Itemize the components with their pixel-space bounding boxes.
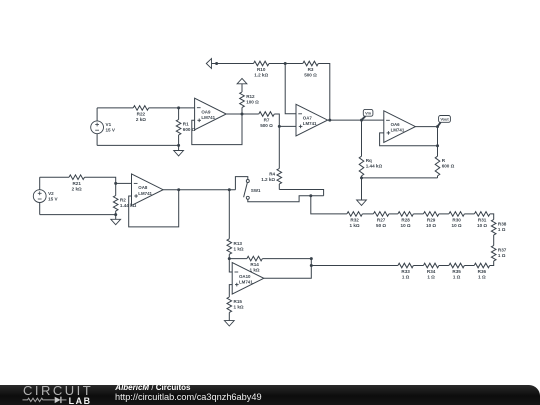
svg-text:1 Ω: 1 Ω xyxy=(427,275,435,280)
wire V1 bottom xyxy=(97,144,179,146)
wire to SW1 top terminal xyxy=(235,177,247,190)
wire R21 to R2 column xyxy=(85,177,116,195)
supply arrow above R12 xyxy=(237,78,247,88)
node OA7 output left junction xyxy=(328,119,331,122)
wire OA8 feedback loop xyxy=(129,190,179,227)
wire V2 to R21 xyxy=(40,176,69,178)
svg-text:1 kΩ: 1 kΩ xyxy=(234,246,244,251)
resistor R1 xyxy=(176,108,195,145)
wire OA10 non-inverting to R15 xyxy=(229,285,232,297)
svg-text:10 Ω: 10 Ω xyxy=(426,223,436,228)
node ground junction 3 xyxy=(114,213,117,216)
wire arrow to R10 xyxy=(218,63,254,65)
svg-text:1.44 kΩ: 1.44 kΩ xyxy=(366,163,383,168)
svg-text:R33: R33 xyxy=(401,269,410,274)
node OA8 output junction xyxy=(177,188,180,191)
svg-text:R: R xyxy=(442,158,446,163)
resistor Rq xyxy=(359,120,382,178)
wire R14 to output column xyxy=(262,258,311,260)
voltage source V2 xyxy=(33,177,58,214)
wire R30-R31 xyxy=(464,213,474,215)
svg-text:10 Ω: 10 Ω xyxy=(477,223,487,228)
svg-text:1 Ω: 1 Ω xyxy=(402,275,410,280)
wire OA8 output to R13/SW1 node xyxy=(179,189,236,191)
flag Vin xyxy=(362,109,373,120)
svg-text:10 Ω: 10 Ω xyxy=(401,223,411,228)
svg-text:1 kΩ: 1 kΩ xyxy=(234,305,244,310)
wire R37 to bottom chain xyxy=(490,261,494,266)
resistor R38 xyxy=(491,220,506,235)
svg-text:R36: R36 xyxy=(478,269,487,274)
op-amp OA8 xyxy=(132,174,164,206)
footer bar xyxy=(0,385,540,405)
node R10/R3 junction xyxy=(284,62,287,65)
resistor R4 xyxy=(261,126,281,189)
node OA6 feedback junction xyxy=(436,144,439,147)
wire R22 to OA9 inverting input xyxy=(149,107,195,109)
node OA8 inverting junction xyxy=(114,182,117,185)
wire R28-R29 xyxy=(413,213,423,215)
resistor R34 xyxy=(423,263,438,279)
wire R27-R28 xyxy=(389,213,398,215)
svg-text:R15: R15 xyxy=(234,299,243,304)
url line xyxy=(115,392,262,402)
author line xyxy=(115,383,190,392)
svg-text:LM741: LM741 xyxy=(303,121,317,126)
node flag arrow left xyxy=(206,59,217,69)
wire V2 bottom xyxy=(40,214,116,216)
svg-text:1 Ω: 1 Ω xyxy=(453,275,461,280)
svg-text:500 Ω: 500 Ω xyxy=(260,123,273,128)
CircuitLab logo schematic squiggle xyxy=(21,395,71,405)
svg-text:R27: R27 xyxy=(377,218,386,223)
resistor R2 xyxy=(113,196,136,215)
wire top junction down to OA7 inverting input xyxy=(285,64,296,114)
svg-text:OA9: OA9 xyxy=(201,110,211,115)
resistor R37 xyxy=(491,246,506,261)
wire R34-R33 xyxy=(413,265,423,267)
wire R33 to OA10 output column xyxy=(311,265,398,267)
resistor R33 xyxy=(398,263,413,279)
svg-text:V1: V1 xyxy=(106,122,112,127)
svg-text:1.2 kΩ: 1.2 kΩ xyxy=(254,73,268,78)
wire R3 to OA7 output column xyxy=(318,64,330,121)
wire OA6 output xyxy=(415,126,437,128)
CircuitLab logo text LAB xyxy=(69,396,92,405)
svg-text:R37: R37 xyxy=(498,248,507,253)
svg-text:OA7: OA7 xyxy=(303,116,313,121)
svg-text:15 V: 15 V xyxy=(48,196,58,201)
svg-text:LM741: LM741 xyxy=(138,191,152,196)
svg-text:R34: R34 xyxy=(427,269,436,274)
flag Vout xyxy=(438,116,451,127)
ground below R2 xyxy=(111,215,121,225)
resistor R28 xyxy=(398,212,413,228)
node chain/output column junction xyxy=(310,264,313,267)
svg-text:R30: R30 xyxy=(452,218,461,223)
op-amp OA6 xyxy=(384,111,416,143)
wire OA7 output to Vin node xyxy=(328,119,384,121)
wire OA9 output to R7 xyxy=(242,113,259,115)
resistor R27 xyxy=(373,212,388,228)
resistor R36 xyxy=(474,263,489,279)
node Vin junction xyxy=(360,119,363,122)
resistor R29 xyxy=(423,212,438,228)
node SW1 net junction xyxy=(309,194,312,197)
resistor R21 xyxy=(69,175,84,191)
svg-text:1 Ω: 1 Ω xyxy=(498,253,506,258)
svg-text:LM741: LM741 xyxy=(391,128,405,133)
voltage source V1 xyxy=(91,108,116,145)
wire OA6 output column xyxy=(437,127,439,157)
svg-text:R29: R29 xyxy=(427,218,436,223)
svg-text:R12: R12 xyxy=(246,94,255,99)
node arrow junction xyxy=(215,62,218,65)
wire R31 to right column xyxy=(490,214,494,220)
svg-text:OA6: OA6 xyxy=(391,122,401,127)
resistor R12 xyxy=(240,89,259,115)
wire R7 to OA7 non-inverting input xyxy=(274,114,296,126)
svg-text:R2: R2 xyxy=(120,198,126,203)
wire SW1 bottom path xyxy=(248,196,324,202)
CircuitLab logo text CIRCUIT xyxy=(23,383,93,398)
node ground junction 2 xyxy=(360,176,363,179)
node R14/output junction xyxy=(310,257,313,260)
svg-text:OA8: OA8 xyxy=(138,185,148,190)
svg-text:1.2 kΩ: 1.2 kΩ xyxy=(261,177,275,182)
resistor R13 xyxy=(227,190,244,259)
wire junction to OA8 inverting input xyxy=(116,182,132,184)
svg-text:50 Ω: 50 Ω xyxy=(376,223,386,228)
node Vout junction xyxy=(436,125,439,128)
wire net to resistor chain xyxy=(311,196,347,214)
svg-text:R31: R31 xyxy=(478,218,487,223)
svg-text:2 kΩ: 2 kΩ xyxy=(136,117,146,122)
svg-text:OA10: OA10 xyxy=(239,274,251,279)
resistor R32 xyxy=(347,212,362,228)
svg-text:R21: R21 xyxy=(72,181,81,186)
svg-text:100 Ω: 100 Ω xyxy=(246,100,259,105)
switch SW1 xyxy=(244,180,261,200)
node R22/R1 junction xyxy=(177,106,180,109)
svg-text:500 Ω: 500 Ω xyxy=(304,73,317,78)
resistor R15 xyxy=(227,297,244,312)
svg-text:Vin: Vin xyxy=(365,110,372,115)
svg-text:V2: V2 xyxy=(48,191,54,196)
svg-text:600 Ω: 600 Ω xyxy=(442,163,455,168)
svg-text:R1: R1 xyxy=(183,122,189,127)
node R13/R14 junction xyxy=(228,257,231,260)
svg-text:1 kΩ: 1 kΩ xyxy=(350,223,360,228)
resistor R22 xyxy=(133,106,148,122)
svg-text:R14: R14 xyxy=(250,262,259,267)
wire R32-R27 xyxy=(362,213,373,215)
svg-text:Vout: Vout xyxy=(440,117,449,122)
svg-text:R22: R22 xyxy=(137,112,146,117)
ground below R15 xyxy=(224,313,234,327)
svg-text:1 Ω: 1 Ω xyxy=(478,275,486,280)
svg-text:LM741: LM741 xyxy=(201,115,215,120)
node R13/SW1 junction xyxy=(228,188,231,191)
resistor R30 xyxy=(449,212,464,228)
resistor R35 xyxy=(449,263,464,279)
wire OA9 feedback loop xyxy=(192,114,242,145)
wire to OA10 inverting input xyxy=(229,259,232,272)
svg-text:1 Ω: 1 Ω xyxy=(498,227,506,232)
svg-text:2 kΩ: 2 kΩ xyxy=(72,186,82,191)
svg-text:SW1: SW1 xyxy=(251,188,261,193)
ground below R1 xyxy=(174,145,184,156)
svg-text:LM741: LM741 xyxy=(239,279,253,284)
op-amp OA9 xyxy=(195,98,227,130)
resistor R10 xyxy=(254,61,269,77)
ground below Rq xyxy=(357,178,367,206)
wire R38-R37 xyxy=(493,235,495,246)
op-amp OA7 xyxy=(296,104,328,136)
wire OA10 output xyxy=(264,259,312,279)
op-amp OA10 xyxy=(232,263,264,295)
node OA7 plus input junction xyxy=(278,125,281,128)
svg-text:R35: R35 xyxy=(452,269,461,274)
svg-text:Rq: Rq xyxy=(366,158,372,163)
svg-text:10 Ω: 10 Ω xyxy=(452,223,462,228)
wire R10 to R3 xyxy=(269,63,303,65)
resistor R3 xyxy=(303,61,318,77)
resistor R14 xyxy=(247,256,262,272)
svg-text:15 V: 15 V xyxy=(106,128,116,133)
resistor R7 xyxy=(259,112,274,128)
svg-text:R10: R10 xyxy=(257,67,266,72)
svg-text:R13: R13 xyxy=(234,241,243,246)
svg-text:R3: R3 xyxy=(308,67,314,72)
resistor R31 xyxy=(474,212,489,228)
svg-text:R38: R38 xyxy=(498,222,507,227)
resistor R xyxy=(435,156,454,178)
svg-text:600 Ω: 600 Ω xyxy=(183,127,196,132)
svg-text:R4: R4 xyxy=(269,171,275,176)
node OA9 output junction xyxy=(241,113,244,116)
wire R35-R34 xyxy=(439,265,449,267)
svg-text:R7: R7 xyxy=(264,118,270,123)
node ground junction 1 xyxy=(177,144,180,147)
svg-text:R28: R28 xyxy=(401,218,410,223)
wire junction to R14 xyxy=(229,258,247,260)
wire R36-R35 xyxy=(464,265,474,267)
wire OA6 feedback loop xyxy=(380,133,438,146)
svg-text:R32: R32 xyxy=(350,218,359,223)
wire V1 to R22 xyxy=(97,107,133,109)
wire R29-R30 xyxy=(439,213,449,215)
wire Rq bottom to R bottom xyxy=(362,177,438,179)
wire R4 bottom path xyxy=(279,190,323,196)
